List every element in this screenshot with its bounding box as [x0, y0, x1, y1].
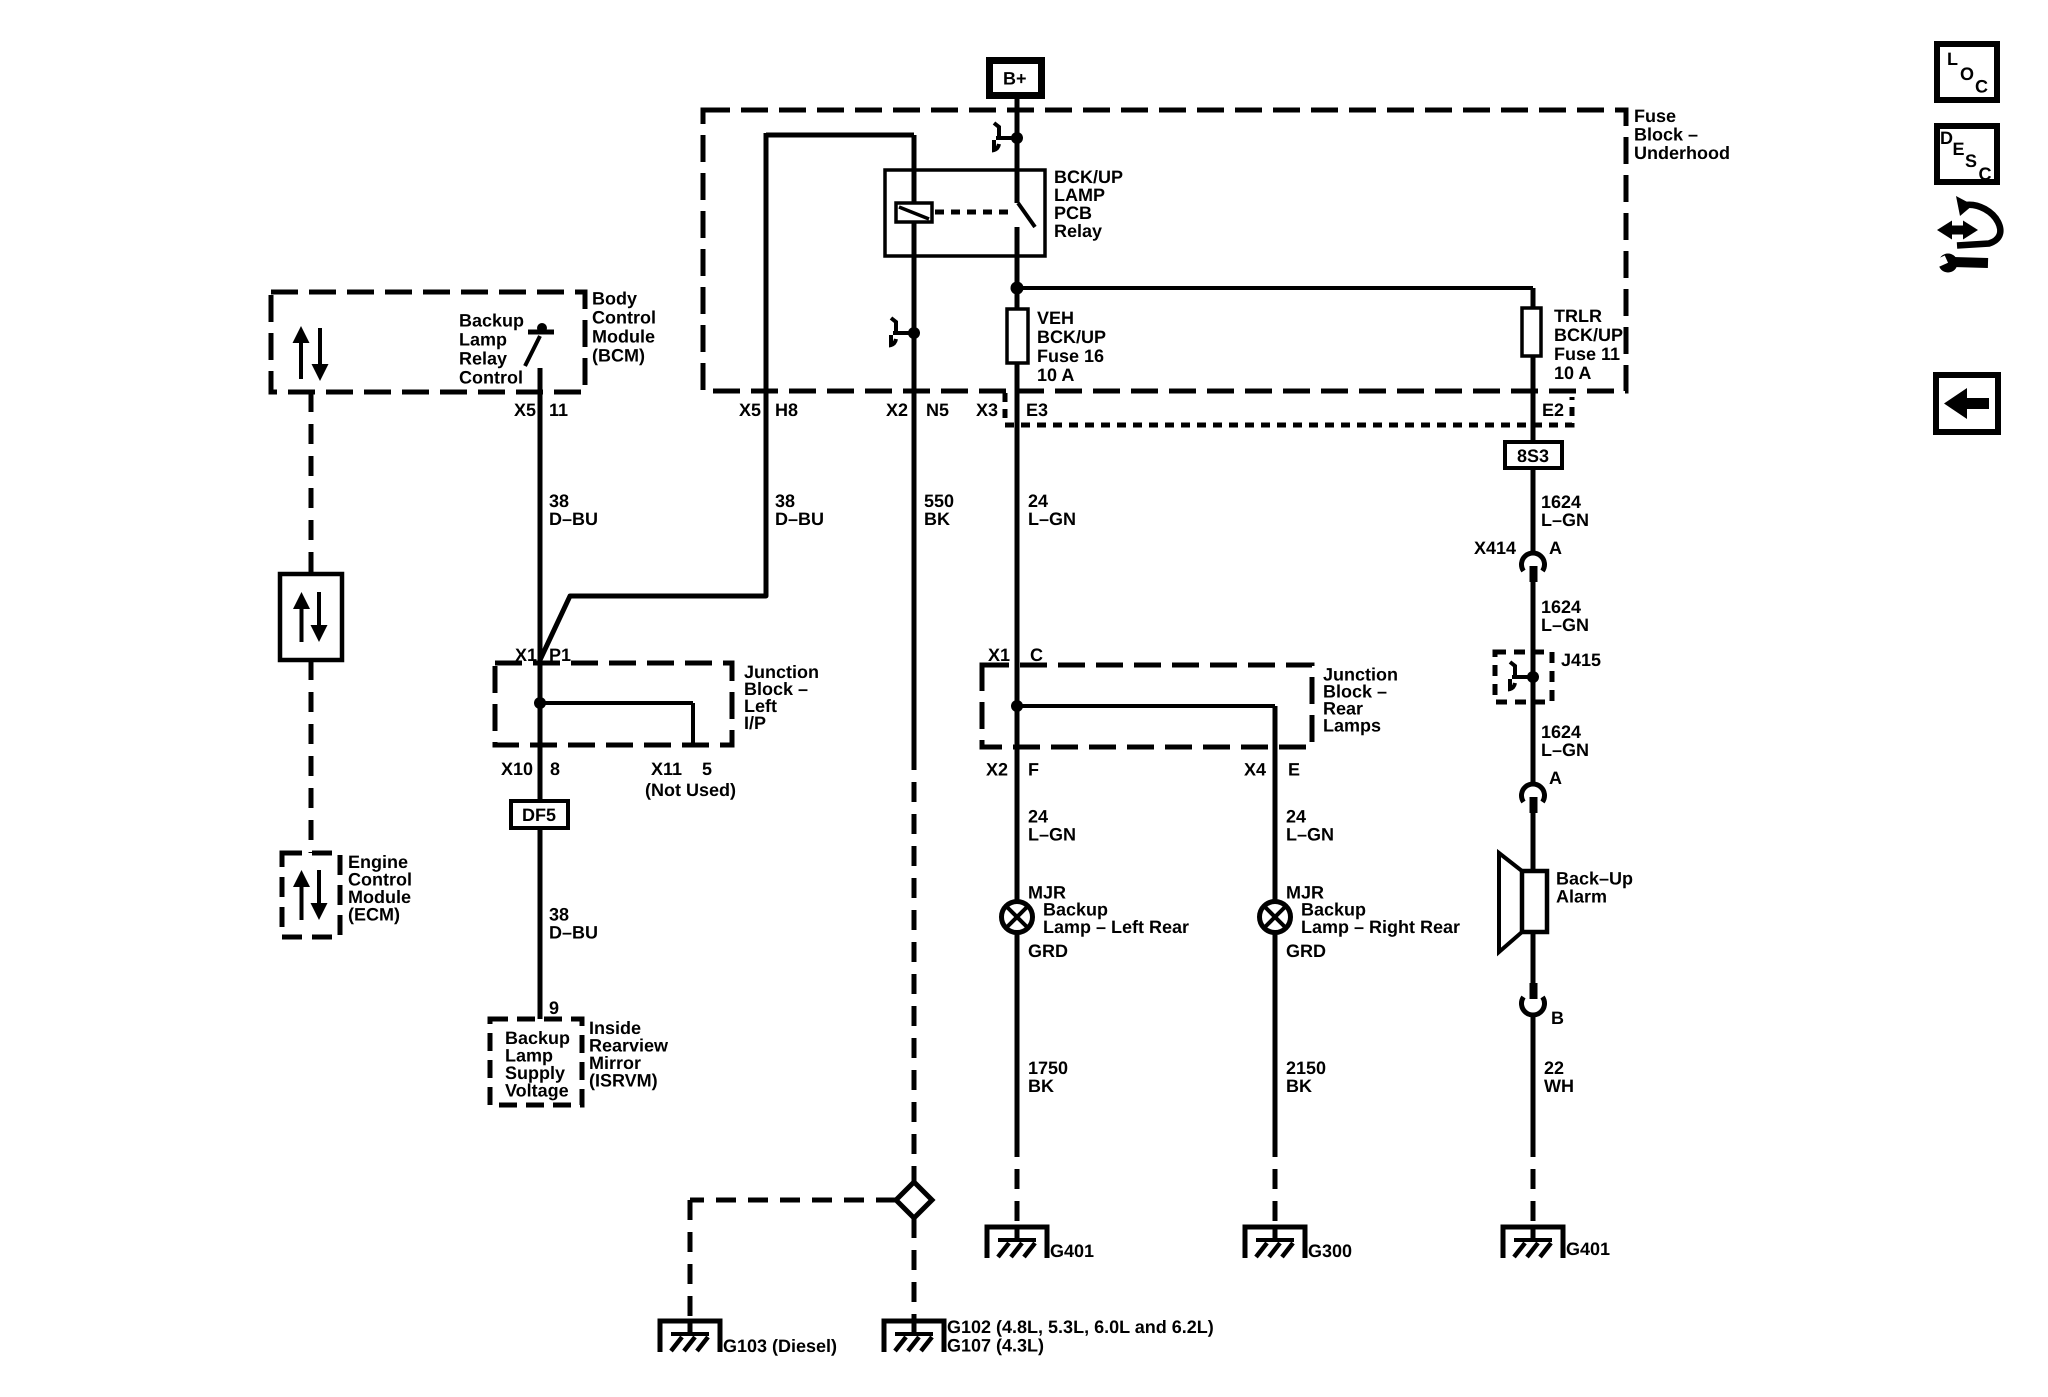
connector labels X5 11	[514, 400, 568, 420]
svg-text:G300: G300	[1308, 1241, 1352, 1261]
wire: junction block to DF5	[538, 745, 543, 801]
connector X414 labels	[1474, 538, 1562, 558]
wire: splice to G103 branch	[690, 1200, 896, 1321]
svg-text:(Not Used): (Not Used)	[645, 780, 736, 800]
fuse block underhood dashed box	[703, 110, 1626, 391]
connector labels X5 H8	[739, 400, 798, 420]
wires inside junction block left	[540, 663, 693, 745]
ground G300 (right rear lamp)	[1245, 1227, 1305, 1258]
wire: 550 BK solid run	[912, 391, 917, 750]
junction block rear lamps dashed box	[982, 665, 1312, 747]
icon swap/wrench	[1932, 196, 2000, 273]
left lamp labels	[1028, 883, 1189, 962]
BCM: body control module dashed box	[271, 292, 585, 392]
svg-text:X11: X11	[651, 759, 682, 779]
svg-text:J415: J415	[1561, 650, 1601, 670]
clip connector on N5 wire	[891, 318, 920, 345]
fuse 11: TRLR BCK/UP	[1522, 288, 1541, 356]
connector labels X10 8	[501, 759, 560, 779]
svg-text:X1: X1	[988, 645, 1010, 665]
wire: J415 to connector A	[1531, 702, 1536, 786]
svg-text:DF5: DF5	[522, 805, 556, 825]
connector labels X2 F	[986, 760, 1039, 780]
back-up alarm speaker	[1499, 853, 1547, 952]
svg-text:G401: G401	[1050, 1241, 1094, 1261]
node: junction block left splice	[534, 697, 546, 709]
wire: H8 drop joining pin P1	[540, 391, 766, 660]
svg-text:BackupLampSupplyVoltage: BackupLampSupplyVoltage	[505, 1028, 570, 1101]
connector A symbol	[1522, 784, 1545, 871]
svg-text:C: C	[1030, 645, 1043, 665]
wire: E down to right rear lamp	[1273, 747, 1278, 900]
icon DESC	[1937, 126, 1997, 184]
connector labels X11 5 (not used)	[645, 759, 736, 800]
splice J415 dashed box	[1495, 652, 1552, 702]
splice DF5	[511, 801, 568, 828]
svg-text:X5: X5	[739, 400, 761, 420]
svg-text:O: O	[1960, 64, 1974, 84]
svg-text:X10: X10	[501, 759, 533, 779]
svg-text:H8: H8	[775, 400, 798, 420]
dashed control line to ECM	[309, 660, 314, 853]
svg-text:GRD: GRD	[1286, 941, 1326, 961]
connector B symbol	[1522, 932, 1545, 1137]
svg-text:X2: X2	[886, 400, 908, 420]
lamp: backup lamp left rear	[1002, 902, 1033, 933]
relay control dashed link	[935, 210, 1012, 215]
wire: relay output across to TRLR fuse	[1017, 286, 1533, 290]
node: relay output junction	[1011, 282, 1024, 295]
fuse 16: VEH BCK/UP	[1007, 309, 1028, 363]
svg-text:9: 9	[549, 998, 559, 1018]
svg-text:Lamp – Right Rear: Lamp – Right Rear	[1301, 917, 1460, 937]
wire: H8 riser and link to relay coil	[766, 133, 914, 391]
svg-text:8: 8	[550, 759, 560, 779]
svg-text:G401: G401	[1566, 1239, 1610, 1259]
icon back arrow	[1936, 375, 1998, 432]
svg-text:X3: X3	[976, 400, 998, 420]
wire: B+ down to relay switch	[1015, 95, 1020, 203]
svg-text:GRD: GRD	[1028, 941, 1068, 961]
wire: right lamp ground lead 2150 BK	[1273, 932, 1278, 1227]
svg-text:11: 11	[549, 400, 568, 420]
svg-text:A: A	[1549, 768, 1562, 788]
clip connector on B+ feed wire	[994, 123, 1023, 150]
splice diamond	[896, 1182, 932, 1218]
relay coil	[896, 135, 932, 391]
svg-text:C: C	[1975, 77, 1988, 97]
icon LOC	[1937, 44, 1997, 100]
connector labels X3 E3	[976, 400, 1048, 420]
BCM relay control switch	[525, 323, 554, 392]
lamp: backup lamp right rear	[1260, 902, 1291, 933]
mid up/down arrow box	[280, 574, 342, 660]
svg-text:550BK: 550BK	[924, 491, 954, 529]
wire: BCM pin 11 down to junction block	[538, 392, 543, 663]
relay box: BCK/UP LAMP PCB Relay	[885, 170, 1045, 256]
wire: left lamp ground lead 1750 BK	[1015, 932, 1020, 1227]
right lamp labels	[1286, 883, 1460, 962]
BCM up/down arrows symbol	[293, 326, 329, 381]
svg-text:E2: E2	[1542, 400, 1564, 420]
ground G401 (alarm)	[1503, 1227, 1563, 1258]
svg-text:A: A	[1549, 538, 1562, 558]
junction block left I/P dashed box	[495, 663, 732, 745]
wire: down to VEH fuse	[1015, 288, 1020, 309]
ISRVM backup lamp supply voltage dashed box	[490, 1019, 582, 1105]
wire: VEH fuse to E3	[1015, 363, 1020, 425]
wire: DF5 down to ISRVM	[538, 828, 543, 1019]
splice 8S3	[1505, 442, 1562, 468]
wire: dashed to G401	[1531, 1137, 1536, 1227]
svg-text:F: F	[1028, 760, 1039, 780]
wire: F down to left rear lamp	[1015, 747, 1020, 900]
wire: E3 down to junction block rear	[1015, 425, 1020, 665]
ECM: engine control module dashed box	[282, 853, 340, 937]
svg-text:B+: B+	[1003, 69, 1027, 89]
connector labels X4 E	[1244, 760, 1300, 780]
svg-text:G103 (Diesel): G103 (Diesel)	[723, 1336, 837, 1356]
svg-text:Lamp – Left Rear: Lamp – Left Rear	[1043, 917, 1189, 937]
svg-text:N5: N5	[926, 400, 949, 420]
svg-text:X5: X5	[514, 400, 536, 420]
connector labels X2 N5	[886, 400, 949, 420]
relay switch blade	[1017, 203, 1035, 288]
clip connector inside J415	[1510, 652, 1539, 702]
svg-text:C: C	[1979, 164, 1992, 184]
dotted connector box E3 to E2	[1005, 393, 1572, 425]
ground G103	[660, 1321, 720, 1352]
ground G102/G107	[884, 1321, 944, 1352]
ground G401 (left rear lamp)	[987, 1227, 1047, 1258]
svg-text:8S3: 8S3	[1517, 446, 1549, 466]
connector X414 symbol	[1522, 553, 1545, 652]
wire: splice down to G102	[912, 1218, 917, 1321]
svg-text:E: E	[1953, 139, 1965, 159]
svg-text:5: 5	[702, 759, 712, 779]
wire: 8S3 to X414	[1531, 468, 1536, 555]
B+ battery feed symbol	[990, 61, 1042, 96]
wire: 550 BK dashed run to splice	[912, 750, 917, 1183]
svg-text:E: E	[1288, 760, 1300, 780]
svg-text:X2: X2	[986, 760, 1008, 780]
svg-text:X4: X4	[1244, 760, 1266, 780]
dashed control line BCM to mid arrow box	[309, 392, 314, 575]
svg-text:B: B	[1551, 1008, 1564, 1028]
svg-text:S: S	[1965, 151, 1977, 171]
connector labels X1 P1	[515, 645, 571, 665]
wire: TRLR fuse down through E2	[1531, 356, 1536, 442]
svg-text:L: L	[1947, 49, 1958, 69]
svg-text:E3: E3	[1026, 400, 1048, 420]
svg-text:X414: X414	[1474, 538, 1516, 558]
node: junction block rear splice	[1011, 700, 1023, 712]
svg-text:D: D	[1940, 128, 1953, 148]
connector labels X1 C	[988, 645, 1043, 665]
wires inside junction block rear	[1017, 665, 1275, 747]
